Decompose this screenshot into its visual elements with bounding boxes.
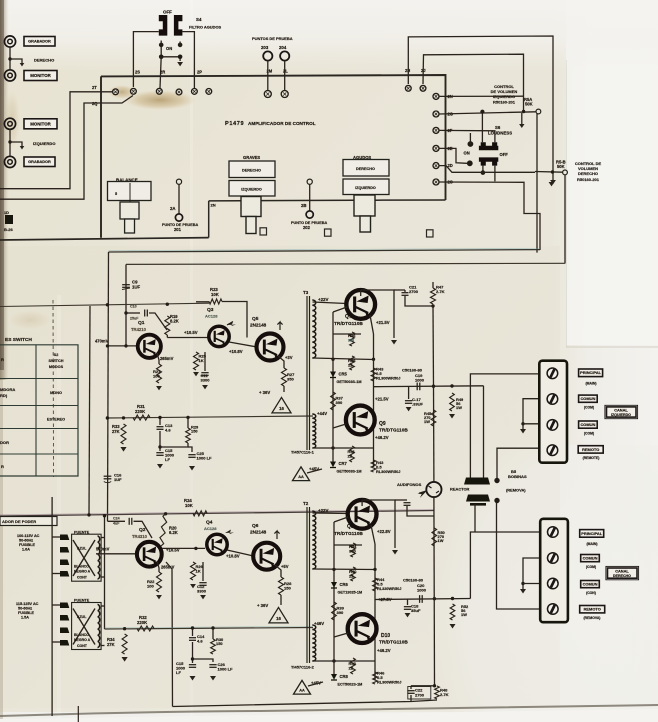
svg-text:16: 16 (279, 406, 284, 411)
wire output to reactor (483, 386, 485, 478)
node R47 bottom (431, 304, 434, 307)
node T2 mid a (332, 568, 335, 571)
svg-text:265mV: 265mV (160, 356, 174, 361)
svg-text:2P: 2P (197, 70, 202, 75)
test point 204 (280, 51, 289, 60)
svg-text:50-60Hz: 50-60Hz (19, 539, 33, 543)
potentiometer GRAVES shaft (241, 197, 261, 217)
svg-text:Q3: Q3 (207, 307, 214, 313)
svg-text:.33UF: .33UF (412, 402, 424, 407)
svg-text:AC128: AC128 (205, 314, 218, 319)
svg-text:4.6: 4.6 (165, 428, 171, 433)
wire 204 down (284, 61, 286, 91)
wire S4 contacts (161, 47, 180, 61)
svg-text:2N2148: 2N2148 (250, 530, 267, 535)
svg-text:ADOR DE PODER: ADOR DE PODER (2, 519, 36, 524)
wire Q2 emitter (157, 561, 159, 572)
capacitor C10 (144, 310, 146, 317)
svg-text:+10.5V: +10.5V (184, 330, 198, 335)
node x88 bus (87, 513, 90, 516)
resistor R33 (121, 424, 126, 444)
svg-text:S2: S2 (54, 353, 59, 357)
winding teeth 1 (98, 536, 100, 579)
wire S6 lower left leg (482, 166, 484, 173)
arrow R52 gnd (450, 624, 456, 629)
svg-text:22: 22 (348, 453, 353, 458)
arrow izquierdo (20, 146, 25, 149)
wire cross 1a (73, 540, 95, 576)
wire C13-C15 (159, 431, 161, 451)
arrow R25 gnd (193, 372, 199, 376)
reactor block (left ch) (464, 478, 490, 485)
wire 2H loop (408, 36, 553, 180)
svg-text:MODOS: MODOS (49, 365, 64, 369)
label TRANSFORMADOR DE PODER (0, 517, 57, 526)
svg-text:+46.2V: +46.2V (377, 648, 391, 653)
svg-text:100: 100 (147, 584, 155, 589)
svg-text:FILTRO AGUDOS: FILTRO AGUDOS (189, 25, 222, 30)
wire S6 a stub (469, 133, 471, 144)
svg-text:DERECHO: DERECHO (242, 169, 261, 173)
wire bus y628 (105, 628, 314, 630)
svg-text:T3: T3 (303, 290, 309, 295)
node S6 tap upper (480, 110, 484, 114)
svg-text:390: 390 (348, 338, 354, 342)
wire R5B wiper down (564, 175, 566, 264)
resistor R44 (373, 578, 378, 591)
svg-text:35uF: 35uF (411, 608, 421, 613)
wire 2N right (439, 95, 524, 97)
svg-text:ON: ON (464, 151, 470, 156)
svg-text:CR6: CR6 (340, 582, 349, 587)
resistor R32 (137, 626, 154, 631)
potentiometer AGUDOS derecho (343, 160, 389, 177)
lug square 3 (427, 230, 434, 237)
diode CR5 (330, 372, 336, 378)
wire Q1 base input (108, 345, 138, 347)
node S4 contact a (159, 43, 164, 48)
switch S4 bar right (174, 15, 183, 36)
svg-text:390: 390 (337, 610, 345, 615)
transformer primary box1 (72, 534, 102, 581)
wire Q8 base stub (334, 517, 348, 522)
wire Q8 collector loop (362, 500, 395, 548)
svg-text:IZQUIERDO: IZQUIERDO (33, 141, 55, 146)
node Q1 base x107 (106, 344, 109, 347)
reactor block (right ch) (466, 495, 490, 502)
wire x78 stub (77, 706, 79, 722)
capacitor C12 (199, 582, 206, 584)
label COMUN 2 (der) (581, 581, 600, 588)
resistor R46 (373, 672, 378, 684)
svg-text:TR/DTG110B: TR/DTG110B (379, 428, 408, 434)
svg-text:2L: 2L (283, 69, 288, 74)
wire box step b (261, 199, 354, 201)
wire output line left ch (374, 385, 484, 388)
node C13 top (158, 416, 161, 419)
potentiometer GRAVES derecho (229, 161, 275, 178)
wire C10 to R19 (149, 313, 167, 330)
wire Q7 base rail link (333, 333, 361, 335)
node screw23 join (521, 422, 524, 425)
svg-text:CR5: CR5 (339, 372, 348, 377)
RCA jack J4 (4, 156, 15, 167)
arrow R21 gnd (156, 386, 162, 390)
label REMOTO (der) (580, 606, 605, 613)
resistor R52 (450, 604, 455, 620)
transformer T3 winding upper (312, 300, 316, 358)
svg-text:0.5: 0.5 (376, 464, 382, 469)
svg-text:TI457C116-2: TI457C116-2 (291, 665, 315, 670)
svg-text:BLANCO: BLANCO (74, 565, 89, 569)
svg-text:0.5: 0.5 (377, 675, 383, 680)
svg-text:SWITCH: SWITCH (49, 359, 64, 363)
node R5A junction (522, 110, 525, 113)
wire 2J loop (423, 54, 524, 110)
svg-text:(COM): (COM) (586, 565, 596, 569)
terminal 2S (131, 88, 137, 94)
resistor R42 (351, 658, 356, 674)
svg-text:RD): RD) (0, 393, 8, 398)
svg-text:GRAVES: GRAVES (243, 155, 260, 160)
svg-text:AMPLIFICADOR DE CONTROL: AMPLIFICADOR DE CONTROL (248, 121, 316, 126)
svg-text:(REMOVA): (REMOVA) (506, 488, 526, 493)
table S2 switch modos (0, 345, 78, 476)
svg-text:+3V: +3V (285, 355, 293, 360)
svg-text:C24: C24 (113, 517, 120, 521)
svg-text:1000 LF: 1000 LF (218, 667, 234, 672)
transformer T3 winding lower (312, 414, 316, 448)
resistor R36 (350, 332, 355, 346)
wire box step c (375, 199, 446, 201)
wire pins1 stub (52, 536, 60, 538)
wire C26 stem (193, 659, 214, 662)
wire 2E wire (439, 148, 467, 163)
arrow C26 gnd (210, 676, 216, 681)
potentiometer BALANCE box (108, 182, 152, 201)
arrow Q5 out (277, 322, 282, 330)
svg-text:50K: 50K (557, 164, 565, 169)
label COMUN 2 (izq) (579, 421, 598, 428)
svg-text:1K: 1K (196, 569, 201, 574)
connector pins group1 (60, 535, 69, 541)
wire C22 bottom stub (410, 695, 412, 702)
svg-text:MONITOR: MONITOR (30, 121, 51, 126)
wire C13 stem (159, 418, 161, 426)
svg-text:R50160-201: R50160-201 (577, 177, 600, 182)
svg-text:ON: ON (166, 46, 172, 51)
transistor Q3 (209, 326, 229, 346)
svg-text:4.6: 4.6 (197, 639, 203, 644)
RCA jack J3 (4, 118, 15, 129)
wire screw4 wire (497, 448, 540, 478)
capacitor C16 (104, 475, 112, 477)
wire left rail x333 (332, 312, 334, 462)
resistor R45b (371, 460, 376, 472)
svg-text:C10: C10 (130, 305, 137, 309)
wire C20 link (407, 506, 434, 516)
svg-text:DERECHO: DERECHO (613, 574, 631, 578)
wire 2B down (309, 184, 311, 211)
wire Q6 emitter (275, 565, 281, 577)
wire Q1 collector node (166, 335, 168, 338)
arrow C15 gnd (157, 464, 163, 469)
resistor R31 (133, 415, 150, 420)
wire box step a (209, 200, 241, 202)
svg-text:22: 22 (349, 573, 354, 578)
arrow C15b gnd (190, 676, 196, 681)
svg-text:+5V: +5V (281, 564, 289, 569)
svg-text:FUSIBLE: FUSIBLE (18, 611, 35, 615)
svg-text:(REMOVA): (REMOVA) (584, 616, 601, 620)
wire 2F to S6 (439, 130, 495, 142)
svg-text:+22V: +22V (318, 508, 329, 513)
svg-text:(COM): (COM) (584, 406, 594, 410)
svg-text:COMUN: COMUN (580, 396, 595, 401)
wire box step vertical (208, 201, 210, 238)
node bus417 x107 (106, 416, 109, 419)
svg-text:150: 150 (216, 641, 223, 646)
wire C18 stem (407, 599, 409, 605)
svg-text:+46.2V: +46.2V (375, 435, 389, 440)
wire T2 mid tap (313, 568, 376, 571)
wire Q10 base stub (334, 633, 348, 637)
screw terminal R3 (548, 578, 559, 589)
arrow jack (418, 491, 427, 498)
wire R29 stem (187, 417, 189, 428)
svg-text:TR4210: TR4210 (131, 327, 147, 332)
wire R23 line (196, 301, 209, 303)
capacitor C13 (157, 426, 164, 428)
wire +10.5V line (167, 337, 209, 339)
box P1479 amplificador de control (101, 75, 446, 238)
svg-text:(MAIN): (MAIN) (586, 381, 597, 385)
winding teeth 2 (98, 605, 100, 648)
svg-text:RL300WR50J: RL300WR50J (377, 680, 401, 684)
wire x52 vertical (51, 497, 53, 716)
wire S4 stub a (160, 41, 162, 45)
svg-text:ESTEREO: ESTEREO (47, 418, 65, 422)
node T3 mid a (331, 358, 334, 361)
terminal 2J (420, 85, 426, 91)
svg-text:R: R (1, 357, 4, 362)
capacitor C14 (189, 637, 196, 639)
svg-text:GRABADOR: GRABADOR (28, 160, 51, 164)
svg-text:(COM): (COM) (584, 431, 594, 435)
resistor R48 (435, 686, 440, 699)
test point 203 (263, 51, 272, 60)
resistor R47 (431, 288, 436, 304)
resistor R49 (450, 393, 455, 411)
arrow Q3 out (227, 322, 236, 327)
wire bus2 right-channel input (126, 263, 565, 264)
svg-text:150: 150 (284, 586, 292, 591)
wire Q8 collector to C20 (395, 499, 407, 501)
svg-text:1W: 1W (438, 538, 444, 543)
svg-text:2B: 2B (301, 203, 307, 208)
label CANAL DERECHO (608, 568, 638, 578)
capacitor C11 (201, 372, 208, 374)
wire T2 top to Q8 (313, 512, 349, 515)
test point 201 (175, 214, 182, 221)
capacitor C17 (405, 400, 412, 402)
switch S4 bar left (159, 15, 168, 36)
capacitor C21 (402, 292, 409, 294)
svg-text:CONT: CONT (77, 576, 88, 580)
wire R5A arrow stem (521, 113, 523, 124)
wire x433 to jack (433, 386, 435, 481)
terminal 2L (281, 91, 288, 98)
svg-text:IZQUIERDO: IZQUIERDO (611, 413, 631, 417)
svg-text:50-60Hz: 50-60Hz (18, 607, 32, 611)
svg-text:MONITOR: MONITOR (30, 73, 51, 78)
wire S6 lower right leg (494, 166, 496, 182)
transistor Q4 (207, 534, 227, 554)
wire bus y417 (107, 416, 313, 418)
terminal 2A (176, 179, 181, 184)
resistor R30 (211, 639, 216, 654)
wire cross 2a (73, 609, 95, 645)
wire screw4b wire (497, 503, 541, 610)
RCA jack J2 (4, 70, 15, 81)
svg-text:B-26: B-26 (4, 227, 14, 232)
wire bus1 left-channel input (109, 250, 541, 252)
wire Q7 base stub (333, 307, 347, 312)
svg-text:1.6A: 1.6A (22, 548, 30, 552)
wire Q8 top stem (361, 500, 363, 506)
node y305 junction (166, 303, 169, 306)
svg-text:1000 LF: 1000 LF (197, 456, 213, 461)
resistor R38 (350, 356, 355, 370)
resistor R21 (157, 364, 162, 383)
arrow C12 gnd (200, 595, 206, 599)
wire Q8 emit stub (371, 525, 375, 544)
triangle ref AA (left ch) (293, 467, 310, 481)
transistor Q10 (348, 614, 377, 643)
svg-text:27K: 27K (107, 642, 115, 647)
terminal 2B (307, 179, 312, 184)
node B5 dot2 (494, 498, 499, 503)
wire to arrow 2 (10, 142, 22, 146)
svg-text:+44V: +44V (317, 411, 327, 416)
node T3 low a (331, 446, 334, 449)
node S4 contact b (178, 43, 183, 48)
wire Q8 base rail link (334, 544, 362, 546)
terminal 2N0 (206, 89, 212, 95)
svg-text:Q9: Q9 (379, 421, 386, 427)
transistor Q6 (253, 543, 280, 570)
screw terminal L1 (547, 368, 558, 379)
resistor R29 (186, 428, 191, 443)
svg-text:3300: 3300 (201, 378, 211, 383)
wire screw1 wire (470, 374, 540, 478)
node R33 top (122, 416, 125, 419)
svg-text:2S: 2S (135, 70, 140, 75)
wire Q7 top stem (360, 290, 362, 296)
wire x172 emitter return (166, 562, 173, 707)
node R20 bus tap (164, 512, 167, 515)
wire 2C wire (439, 182, 540, 250)
node C15b top (191, 657, 194, 660)
potentiometer GRAVES izquierdo (229, 181, 275, 197)
svg-text:+21.5V: +21.5V (376, 320, 390, 325)
svg-text:10K: 10K (211, 292, 220, 297)
node output x433 (432, 385, 435, 388)
svg-text:RL300WR50J: RL300WR50J (376, 470, 400, 474)
svg-text:IZQUIERDO: IZQUIERDO (355, 186, 376, 190)
wire C25 stem (188, 447, 192, 452)
wire T2 lower bottom (313, 660, 376, 662)
node C14 top (191, 626, 194, 629)
wire T3 top to Q7 (313, 302, 347, 304)
wire CR7 to tri (307, 469, 322, 473)
svg-text:AUDIFONOS: AUDIFONOS (397, 482, 422, 487)
svg-text:DERECHO: DERECHO (578, 171, 598, 176)
wire x104 vertical (104, 516, 106, 630)
transformer primary box2 (72, 603, 102, 650)
transformer T3 core (306, 296, 308, 450)
label MONITOR (bottom) (24, 119, 57, 129)
node output2 x452 (451, 597, 454, 600)
svg-text:TR/DTG110B: TR/DTG110B (379, 640, 408, 646)
text C22 2700 (408, 687, 431, 700)
svg-text:27K: 27K (112, 429, 120, 434)
label CANAL IZQUIERDO (607, 407, 637, 417)
node T2 mid b (373, 568, 376, 571)
svg-text:MDORA: MDORA (0, 387, 15, 392)
wire C24 branch (108, 520, 126, 522)
svg-text:ECT5002S-1M: ECT5002S-1M (338, 683, 363, 687)
wire right rail x373 (373, 334, 375, 467)
wire screw2b wire (523, 558, 540, 584)
potentiometer R5B wiper (563, 170, 568, 175)
arrow Q8 col (392, 550, 398, 555)
svg-text:PUNTOS DE PRUEBA: PUNTOS DE PRUEBA (252, 36, 293, 41)
arrow R5B (549, 182, 555, 186)
arrow 2H loop end (550, 180, 556, 184)
resistor R45 (431, 410, 436, 426)
potentiometer BALANCE shaft (120, 202, 139, 219)
svg-text:50K: 50K (525, 102, 533, 107)
svg-text:+46V: +46V (314, 621, 324, 626)
wire left rail x334 (333, 522, 335, 674)
node screw23b join (521, 582, 524, 585)
wire bus2 corner down (125, 264, 127, 346)
resistor R41 (350, 446, 355, 462)
wire R47 top (432, 282, 434, 288)
terminal 2C (433, 179, 439, 185)
wire 2T left (0, 92, 112, 189)
svg-text:LF: LF (176, 670, 181, 675)
wire 2D to R5B (439, 166, 535, 173)
wire power bus (0, 511, 434, 517)
svg-text:22: 22 (348, 362, 353, 367)
terminal 2H (405, 85, 411, 91)
svg-text:2700: 2700 (415, 692, 425, 697)
svg-text:4uF: 4uF (113, 522, 120, 526)
arrow derecho (20, 63, 25, 66)
svg-text:+10.8V: +10.8V (226, 554, 240, 559)
potentiometer AGUDOS shaft (354, 195, 375, 216)
svg-text:2N: 2N (211, 203, 216, 208)
svg-text:Q2: Q2 (139, 527, 146, 533)
capacitor C20b (404, 502, 411, 504)
transistor Q7 (346, 290, 375, 319)
wire screw3 wire (523, 423, 540, 425)
arrow C18 gnd (405, 613, 411, 617)
svg-text:2T: 2T (92, 85, 97, 90)
test point 202 (306, 211, 313, 218)
